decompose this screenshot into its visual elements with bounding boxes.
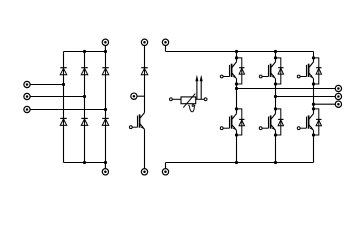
wire: inverter leg V lower (275, 130, 277, 162)
node output W tap (312, 103, 315, 106)
terminal rectifier DC- (102, 169, 108, 175)
node rectifier DC- rail junction leg2 (83, 161, 86, 164)
node inverter DC+ rail junction V (274, 50, 277, 53)
diode D6 (rectifier bottom) (102, 118, 109, 125)
node T2 emitter (235, 133, 238, 136)
wire: AC input L3 lead (30, 109, 106, 111)
wire: thermistor left lead (172, 98, 181, 100)
wire: D13 freewheel branch (314, 109, 319, 135)
terminal thermistor right (204, 98, 207, 101)
arrow: temperature arrow 2 (200, 75, 203, 100)
node T4 emitter (274, 133, 277, 136)
wire: inverter leg W upper (313, 52, 315, 62)
wire: thermistor right lead (196, 98, 205, 100)
wire: rectifier DC- rail (64, 162, 106, 164)
node T4 collector (274, 107, 277, 110)
wire: inverter leg U upper (236, 52, 238, 62)
wire: chopper leg lower (144, 129, 146, 168)
wire: D8 freewheel branch (237, 58, 242, 84)
wire: D10 freewheel branch (276, 58, 281, 84)
diode D5 (rectifier bottom) (81, 118, 88, 125)
wire: inverter leg U lower (236, 130, 238, 162)
node rectifier DC+ rail junction leg2 (83, 50, 86, 53)
diode D11 (freewheel) (278, 119, 283, 125)
diode D9 (freewheel) (239, 119, 244, 125)
wire: inverter leg W middle (313, 79, 315, 114)
diode D13 (freewheel) (316, 119, 321, 125)
diode D2 (rectifier top) (81, 68, 88, 75)
node rectifier DC+ rail junction leg3 (104, 50, 107, 53)
terminal AC input L3 (24, 106, 30, 112)
wire: D12 freewheel branch (314, 58, 319, 84)
transistor T4 (IGBT) (259, 114, 275, 131)
node T1 collector (235, 56, 238, 59)
terminal AC input L2 (24, 93, 30, 99)
wire: inverter DC+ stub (165, 45, 167, 51)
label: theta symbol (188, 105, 195, 112)
node inverter DC+ rail junction U (235, 50, 238, 53)
wire: AC input L1 lead (30, 84, 64, 86)
node T5 collector (312, 56, 315, 59)
node output U tap (235, 87, 238, 90)
diode D12 (freewheel) (316, 68, 321, 74)
wire: output V (276, 96, 336, 98)
transistor T2 (IGBT) (220, 114, 236, 131)
transistor T1 (IGBT) (220, 62, 236, 79)
transistor T5 (IGBT) (297, 62, 313, 79)
terminal output V (335, 93, 341, 99)
transistor T7 (chopper IGBT) (129, 113, 144, 130)
wire: output U (237, 88, 336, 90)
wire: rectifier leg 3 (105, 52, 107, 163)
node T3 emitter (274, 82, 277, 85)
terminal chopper bottom (141, 169, 147, 175)
node L1 junction (62, 83, 65, 86)
wire: chopper collector tap lead (137, 95, 145, 97)
terminal inverter DC- (162, 169, 168, 175)
wire: rectifier leg 1 (63, 52, 65, 163)
wire: rectifier DC+ rail (64, 51, 106, 53)
node T2 collector (235, 107, 238, 110)
wire: D11 freewheel branch (276, 109, 281, 135)
node T3 collector (274, 56, 277, 59)
wire: rectifier leg 2 (84, 52, 86, 163)
wire: output W (314, 103, 336, 105)
node rectifier DC- rail junction leg3 (104, 161, 107, 164)
terminal AC input L1 (24, 81, 30, 87)
wire: rectifier DC- terminal stub (104, 163, 106, 169)
node T6 emitter (312, 133, 315, 136)
node inverter DC- rail junction V (274, 161, 277, 164)
diode D8 (freewheel) (239, 68, 244, 74)
terminal inverter DC+ (162, 39, 168, 45)
terminal rectifier DC+ (102, 39, 108, 45)
diode D10 (freewheel) (278, 68, 283, 74)
wire: inverter DC- rail (166, 162, 314, 164)
wire: inverter leg V middle (275, 79, 277, 114)
wire: inverter DC- stub (165, 163, 167, 169)
node output V tap (274, 95, 277, 98)
node T5 emitter (312, 82, 315, 85)
resistor R1 thermistor body (181, 97, 196, 104)
node inverter DC- rail junction U (235, 161, 238, 164)
node L2 junction (83, 95, 86, 98)
node L3 junction (104, 108, 107, 111)
wire: inverter leg U middle (236, 79, 238, 114)
wire: inverter leg W lower (313, 130, 315, 162)
transistor T6 (IGBT) (297, 114, 313, 131)
diode D4 (rectifier bottom) (60, 118, 67, 125)
diode D7 (chopper freewheel) (141, 68, 148, 75)
transistor T3 (IGBT) (259, 62, 275, 79)
wire: AC input L2 lead (30, 96, 85, 98)
terminal chopper collector tap (131, 93, 137, 99)
wire: chopper leg upper (144, 45, 146, 112)
terminal output U (335, 85, 341, 91)
arrow: temperature arrow 1 (195, 75, 198, 100)
resistor R1 thermistor diagonal stroke (183, 94, 195, 108)
diode D3 (rectifier top) (102, 68, 109, 75)
wire: rectifier DC+ terminal stub (104, 45, 106, 51)
wire: inverter DC+ rail (166, 51, 314, 53)
diode D1 (rectifier top) (60, 68, 67, 75)
node T1 emitter (235, 82, 238, 85)
terminal chopper top (141, 39, 147, 45)
terminal output W (335, 101, 341, 107)
node T6 collector (312, 107, 315, 110)
wire: inverter leg V upper (275, 52, 277, 62)
wire: D9 freewheel branch (237, 109, 242, 135)
terminal thermistor left (170, 98, 173, 101)
